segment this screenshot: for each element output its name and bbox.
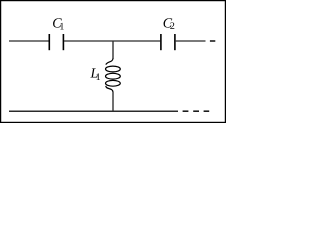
label C2 — [163, 17, 175, 33]
capacitor C2 — [161, 34, 175, 50]
capacitor C1 — [49, 34, 63, 50]
svg-text:1: 1 — [59, 21, 64, 32]
label C1 — [52, 17, 64, 33]
svg-text:1: 1 — [96, 72, 101, 83]
wire bottom rail — [9, 110, 178, 112]
border frame — [1, 1, 226, 123]
wire top rail continuation dash — [210, 40, 215, 42]
wire bottom rail continuation dashes — [183, 110, 189, 112]
wire top rail right segment — [176, 40, 206, 42]
inductor L1 — [106, 59, 121, 93]
svg-text:2: 2 — [170, 21, 175, 32]
wire junction vertical (node between C1 and C2 down to L1) — [112, 41, 114, 60]
label L1 — [90, 66, 101, 82]
wire top rail middle segment — [64, 40, 160, 42]
wire from L1 down to bottom rail — [112, 92, 114, 112]
wire top rail left segment — [9, 40, 49, 42]
